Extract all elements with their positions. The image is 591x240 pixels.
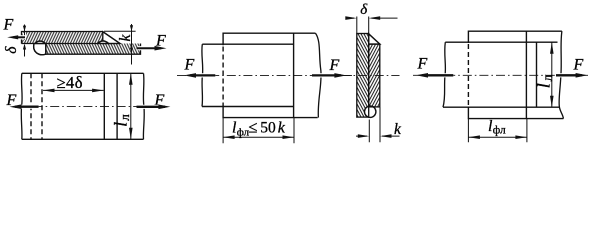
dimension l_fl fig4: extension lines	[468, 119, 527, 143]
hidden line: lower plate end under plate	[41, 73, 43, 139]
arrowhead l_fl left	[223, 135, 235, 139]
edge: upper plate end (plan)	[103, 73, 105, 139]
force arrow F top-left (halo + shaft + head)	[14, 35, 25, 39]
arrowhead l_fl right	[283, 135, 295, 139]
dimension delta fig3: line	[346, 17, 398, 19]
arrowhead l_l top	[129, 73, 133, 85]
dimension k: extension line from plate top edge	[104, 30, 136, 32]
big plate right break edge fig4 (wavy)	[559, 31, 563, 118]
plate top and bottom edges (plan)	[22, 73, 144, 139]
edge: frontal weld toe (plan)	[116, 73, 118, 139]
arrowhead delta top	[23, 26, 26, 32]
arrowhead l_l bottom	[129, 128, 133, 140]
dimension l_fl fig4: line	[468, 136, 527, 138]
dimension k fig3: extension lines	[369, 107, 380, 142]
centerline of plan (dash-dot)	[17, 106, 146, 108]
right break edge (wavy)	[142, 73, 145, 139]
centerline figure 2 (dash-dot)	[177, 74, 353, 76]
upper strip plate edges (flank welds along them)	[202, 44, 294, 106]
svg-text:F: F	[3, 17, 14, 34]
lower plate section (hatched)	[46, 44, 141, 55]
force arrow F fig2 left (halo + shaft + head)	[191, 73, 215, 77]
weld W1 bead arc	[35, 41, 46, 43]
svg-text:F: F	[184, 56, 195, 73]
dimension l_fl: line	[223, 136, 294, 138]
arrowhead >=4delta left	[43, 89, 55, 93]
centerline figure 3 (dash-dot)	[342, 75, 400, 77]
hidden segment of big plate left edge	[222, 47, 224, 107]
arrowhead l_fl fig4 left	[468, 135, 480, 139]
edge: strip right end fig4	[525, 31, 527, 118]
force arrow F fig2 right (halo + shaft + head)	[312, 73, 340, 77]
left break edge (wavy)	[20, 73, 23, 139]
svg-text:F: F	[329, 57, 340, 74]
centerline figure 4 (dash-dot)	[413, 74, 588, 76]
arrowhead l_l fig4 bottom	[550, 96, 554, 108]
weld W1 face outline	[34, 44, 46, 55]
strip left break edge fig4 (wavy)	[443, 42, 445, 107]
svg-text:F: F	[417, 55, 428, 72]
force arrow F fig4 right (halo + shaft + head)	[556, 73, 581, 77]
weld W2 slope line	[103, 32, 120, 44]
upper plate section (hatched)	[22, 32, 103, 44]
weld top fillet (white)	[369, 34, 380, 44]
left plate outline	[357, 34, 369, 118]
upper plate outline	[22, 32, 103, 44]
svg-text:δ: δ	[360, 2, 368, 18]
arrowhead k top	[130, 25, 133, 31]
force arrow F right of section (halo + shaft + head)	[138, 46, 161, 50]
weld W1 root bead	[35, 41, 46, 43]
dimension k fig3: line	[356, 135, 400, 137]
arrowhead l_fl fig4 right	[515, 135, 527, 139]
weld W1 left fillet body	[34, 44, 46, 55]
arrowhead l_l fig4 top	[550, 42, 554, 54]
strip left break edge (wavy)	[201, 44, 204, 106]
weld W2 right fillet body	[103, 32, 120, 44]
dimension l_l: vertical line	[130, 73, 132, 139]
arrowhead delta fig3 right (points left at strip edge)	[369, 16, 381, 20]
svg-text:δ: δ	[3, 46, 20, 54]
dimension delta fig3: extension lines	[357, 17, 369, 34]
label l_l (rotated)	[111, 114, 133, 127]
big plate outline fig4	[468, 31, 563, 118]
arrowhead delta fig3 left (points right at strip edge)	[345, 16, 357, 20]
dimension >=4delta: line	[43, 89, 104, 91]
dimension delta: arrow lines	[23, 33, 26, 40]
arrowhead k fig3 right (points left)	[380, 134, 392, 138]
big plate right break edge (wavy)	[316, 33, 322, 117]
force arrow F fig4 left (halo + shaft + head)	[423, 73, 453, 77]
arrowhead k bottom	[130, 44, 133, 50]
arrowhead >=4delta right	[92, 89, 104, 93]
svg-text:≥4δ: ≥4δ	[57, 73, 84, 92]
label l_l fig4 (rotated)	[533, 74, 556, 88]
edge: strip right end	[293, 33, 295, 117]
lower big plate outline	[223, 33, 318, 117]
right strip outline	[369, 44, 380, 107]
strip plate edges fig4 (on top)	[443, 42, 559, 107]
weld bottom blob (white)	[365, 106, 376, 117]
weld W2 root bead	[98, 41, 109, 44]
force arrow F plan left (halo + shaft + head)	[16, 105, 39, 109]
right strip section (hatched)	[369, 44, 380, 107]
svg-text:k: k	[394, 121, 402, 138]
dimension l_fl: extension lines	[223, 118, 294, 144]
left plate section (hatched)	[357, 34, 369, 118]
weld W2 bead arc	[98, 41, 109, 44]
force arrow F plan right (halo + shaft + head)	[137, 105, 165, 109]
arrowhead delta bottom	[23, 44, 26, 50]
edge: frontal weld toe fig4	[536, 42, 538, 107]
hidden segment of big plate left edge fig4	[467, 44, 469, 106]
dimension l_l fig4: vertical line	[551, 42, 553, 107]
svg-text:k: k	[117, 34, 134, 42]
svg-text:F: F	[573, 56, 584, 73]
hidden line: weld toe under plate	[30, 73, 32, 139]
lower plate outline	[46, 44, 141, 55]
arrowhead k fig3 left (points right)	[358, 134, 370, 138]
plate interface line	[22, 43, 121, 45]
dimension k: vertical line	[131, 24, 133, 65]
